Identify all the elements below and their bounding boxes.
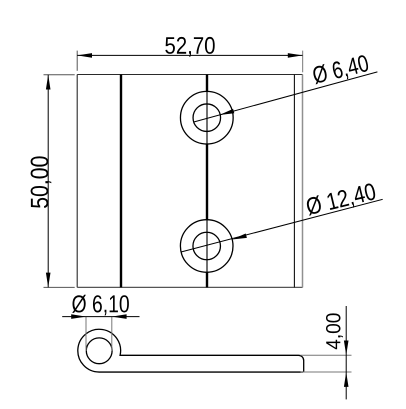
dim D6,10 extension line left — [85, 317, 87, 351]
label text D12,40 — [305, 182, 377, 218]
dim text 52,70 — [165, 37, 214, 57]
dim 4,00 extension line top — [301, 354, 352, 356]
top view: plate outline top edge — [77, 74, 302, 76]
label text D6,40 — [311, 54, 370, 87]
dim 50,00 arrow bottom — [46, 273, 51, 288]
top view: plate outline bottom edge — [77, 286, 302, 288]
dim 52,70 arrow left — [77, 53, 92, 58]
side view pin hole circle D6,10 — [86, 338, 112, 364]
top view: curl tangent edge line — [120, 75, 122, 288]
dim D6,10 arrow right (outside, pointing left) — [112, 314, 127, 319]
dim 50,00 extension line top — [44, 74, 75, 76]
upper hole outer circle D12.40 — [180, 91, 233, 144]
dim D6,10 extension line right — [111, 317, 113, 351]
dim 50,00 dimension line — [47, 75, 49, 288]
dim 4,00 arrow top (above, pointing down) — [344, 341, 349, 356]
dim 52,70 dimension line — [77, 54, 302, 56]
dim 52,70 extension line right — [302, 51, 304, 73]
top view: plate outline right edge — [302, 75, 304, 288]
dim 50,00 extension line bottom — [44, 286, 75, 288]
dim text 4,00 — [326, 313, 343, 349]
leader D6,40 arrowhead at inner circle — [219, 109, 234, 115]
lower hole inner circle D6.40 — [193, 232, 221, 260]
dim D6,10 arrow left (outside, pointing right) — [71, 314, 86, 319]
leader D6,40 line — [193, 72, 377, 122]
top view: fold edge thick segment top — [206, 75, 208, 92]
dim 4,00 arrow bottom (below, pointing up) — [344, 372, 349, 387]
upper hole inner circle D6.40 — [193, 104, 221, 132]
dim 52,70 extension line left — [76, 51, 78, 71]
dim 52,70 arrow right — [288, 53, 303, 58]
top view: fold edge thick segment bottom — [206, 272, 208, 287]
dim D6,10 dimension line — [62, 316, 139, 318]
dim 50,00 arrow top — [46, 75, 51, 90]
top view: hole center line thin through holes — [206, 91, 208, 274]
lower hole outer circle D12.40 — [180, 220, 233, 273]
top view: fold edge thick segment middle — [206, 144, 208, 220]
dim 4,00 extension line bottom — [301, 371, 352, 373]
leader D12,40 arrowhead at outer circle — [232, 234, 247, 240]
top view: right bend silhouette line — [293, 75, 295, 288]
side view hinge leaf outline with curl — [78, 329, 304, 372]
dim 4,00 dimension line — [345, 306, 347, 399]
dim text 50,00 — [31, 156, 52, 208]
dim text D6,10 — [72, 295, 129, 316]
leader D12,40 line — [181, 199, 383, 252]
top view: plate outline left edge — [76, 75, 78, 288]
